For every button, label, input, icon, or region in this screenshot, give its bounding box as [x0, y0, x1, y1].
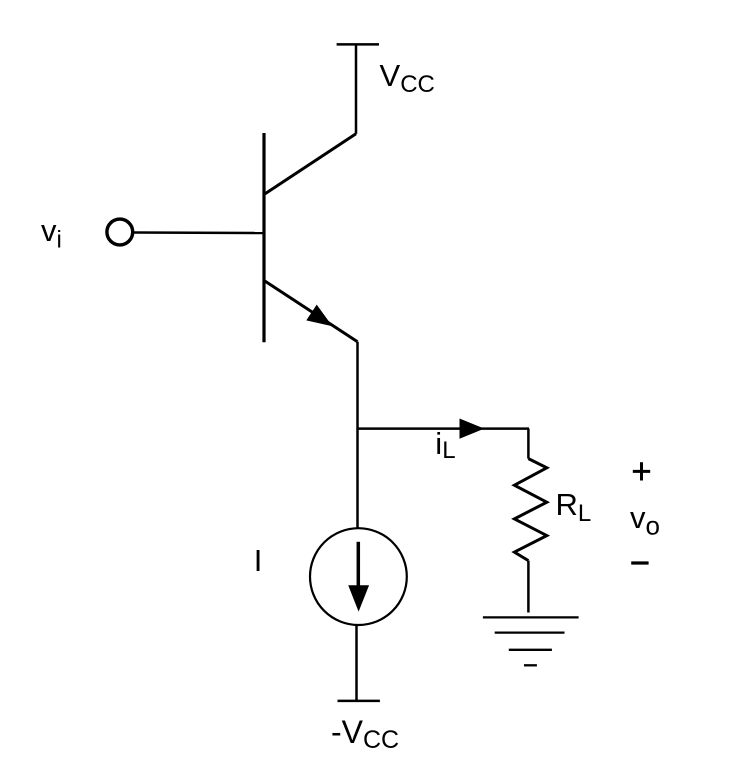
svg-text:-VCC: -VCC: [331, 714, 399, 754]
VCC supply bar: [337, 43, 379, 46]
wire resistor to ground: [527, 561, 530, 613]
svg-text:vi: vi: [41, 213, 62, 254]
svg-text:RL: RL: [556, 487, 592, 527]
iL arrowhead: [460, 419, 485, 439]
transistor Q1 collector: [265, 134, 356, 194]
current source arrowhead: [348, 585, 369, 611]
ground line 1: [483, 616, 579, 618]
svg-text:VCC: VCC: [380, 58, 435, 98]
wire current source to -VCC: [355, 625, 358, 701]
wire down to resistor: [527, 429, 530, 459]
transistor Q1 emitter: [265, 281, 358, 342]
current source arrow shaft: [357, 542, 361, 587]
svg-text:I: I: [254, 543, 263, 578]
svg-text:iL: iL: [435, 426, 455, 464]
node wire to load: [358, 427, 530, 430]
resistor RL zigzag: [514, 459, 546, 561]
ground line 4: [524, 664, 537, 666]
wire VCC to collector: [355, 44, 358, 133]
current source I circle: [310, 528, 407, 625]
-VCC supply bar: [338, 700, 380, 703]
wire emitter down to node: [356, 342, 359, 528]
svg-text:vo: vo: [630, 500, 660, 541]
label - (minus): [631, 561, 648, 564]
input terminal circle: [107, 219, 133, 245]
ground line 2: [495, 631, 565, 633]
label + (plus): [633, 470, 650, 473]
transistor Q1 base bar: [262, 133, 265, 342]
wire input to base: [134, 231, 264, 234]
ground line 3: [509, 649, 552, 651]
transistor Q1 emitter arrowhead: [306, 305, 332, 327]
